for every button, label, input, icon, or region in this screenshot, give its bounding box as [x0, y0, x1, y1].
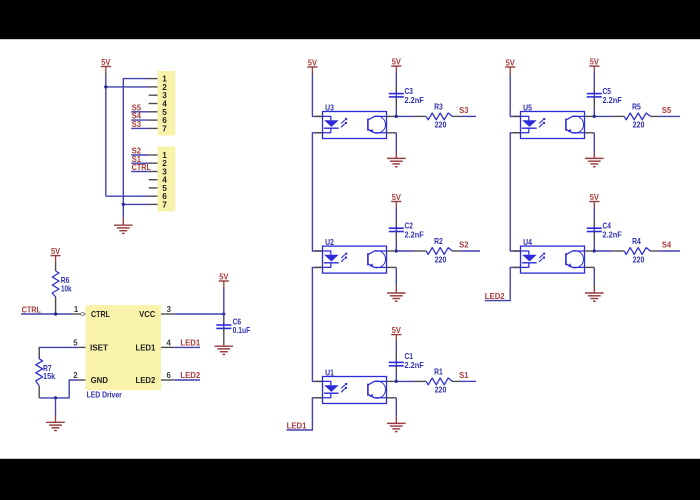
junction CTRL/R6	[54, 312, 57, 315]
wire CTRL to IC pin 1	[21, 313, 72, 315]
U1 LED	[323, 381, 339, 397]
svg-text:LED1: LED1	[136, 343, 156, 352]
junction R7/ground	[54, 396, 57, 399]
wire node to R3	[396, 115, 415, 117]
5V supply (connector area)	[101, 58, 111, 74]
svg-text:5V: 5V	[219, 272, 229, 281]
ground (U3)	[387, 158, 406, 166]
wire ground rail drop	[122, 204, 124, 217]
node S2 junction	[395, 249, 398, 252]
svg-text:2.2nF: 2.2nF	[603, 96, 622, 105]
svg-text:220: 220	[435, 121, 447, 130]
wire 5V to C4	[593, 208, 595, 221]
svg-text:U3: U3	[325, 103, 334, 112]
U2 LED emission arrows	[341, 253, 347, 262]
wire VCC to 5V/C6 node	[175, 313, 224, 315]
svg-text:2.2nF: 2.2nF	[603, 231, 622, 240]
svg-text:2.2nF: 2.2nF	[405, 96, 424, 105]
svg-text:R4: R4	[632, 237, 641, 246]
svg-text:5V: 5V	[392, 326, 402, 335]
wire node to R2	[396, 250, 415, 252]
IC pin 4 stub	[161, 346, 175, 348]
svg-text:U4: U4	[523, 238, 532, 247]
svg-text:C5: C5	[603, 87, 612, 96]
U3 pin stubs	[315, 116, 397, 132]
svg-text:4: 4	[166, 338, 171, 347]
wire J2 pin 6 to 5V rail	[106, 195, 149, 197]
optocoupler sensor U2 body	[323, 238, 387, 273]
svg-text:220: 220	[633, 255, 645, 264]
IC pin 1 stub	[72, 313, 82, 315]
wire ISET to R7	[39, 347, 78, 358]
svg-text:CTRL: CTRL	[132, 163, 151, 172]
svg-text:C6: C6	[233, 317, 242, 326]
svg-text:CTRL: CTRL	[91, 310, 110, 319]
connector J1 pin stubs	[149, 79, 158, 129]
wire R7 bottom to IC GND pin	[39, 380, 78, 398]
svg-text:3: 3	[167, 305, 172, 314]
wire net S3 to J1 pin	[131, 127, 148, 129]
svg-text:S4: S4	[662, 240, 672, 249]
svg-text:5V: 5V	[392, 58, 402, 67]
svg-text:C3: C3	[405, 87, 414, 96]
ground (U5)	[585, 158, 604, 166]
svg-text:1: 1	[74, 305, 79, 314]
capacitor C6 0.1uF	[216, 317, 250, 335]
junction at ground rail / J2 pin 7	[122, 203, 125, 206]
wire node to R5	[594, 115, 613, 117]
svg-text:2.2nF: 2.2nF	[405, 361, 424, 370]
svg-text:S3: S3	[132, 120, 142, 129]
U4 LED emission arrows	[539, 253, 545, 262]
op IC U2 LED driver body	[86, 305, 162, 390]
svg-text:LED Driver: LED Driver	[87, 391, 123, 400]
connector J2 pin stubs	[149, 155, 158, 204]
wire node to R1	[396, 380, 415, 382]
wire 5V to C1	[395, 342, 397, 351]
node S1 junction	[395, 380, 398, 383]
svg-text:5V: 5V	[308, 58, 318, 67]
optocoupler sensor U4 body	[521, 238, 585, 273]
U3 phototransistor	[368, 116, 387, 133]
U3 LED emission arrows	[341, 118, 347, 127]
5V supply (C6)	[219, 272, 229, 288]
ground (U4)	[585, 293, 604, 301]
wire 5V to C3	[395, 73, 397, 87]
wire 5V rail down to J2 pin 6	[105, 74, 107, 197]
svg-text:VCC: VCC	[139, 310, 155, 319]
IC pin 5 stub	[78, 346, 85, 348]
capacitor C2 2.2nF	[389, 221, 424, 239]
node S5 junction	[593, 115, 596, 118]
svg-text:U5: U5	[523, 103, 532, 112]
wire net CTRL to J2 pin	[131, 171, 148, 173]
wire U4 emitter to ground	[593, 267, 595, 286]
wire U5 cathode to U4 anode	[510, 133, 520, 251]
svg-text:LED2: LED2	[136, 376, 156, 385]
wire net S5 to J1 pin	[131, 111, 148, 113]
svg-text:LED2: LED2	[485, 292, 505, 301]
resistor R1 220	[415, 368, 461, 395]
5V supply (C4)	[589, 193, 599, 209]
svg-text:R2: R2	[434, 237, 443, 246]
svg-text:5V: 5V	[590, 193, 600, 202]
svg-text:5V: 5V	[590, 58, 600, 67]
svg-text:U2: U2	[325, 238, 334, 247]
U1 pin stubs	[315, 381, 397, 397]
5V supply (C2)	[391, 193, 401, 209]
pin connect circle IC pin 1	[81, 312, 84, 315]
svg-text:R5: R5	[632, 103, 641, 112]
svg-text:220: 220	[435, 255, 447, 264]
svg-text:2: 2	[73, 371, 78, 380]
resistor R7 15k	[36, 347, 56, 398]
U2 pin stubs	[315, 251, 397, 267]
svg-text:LED1: LED1	[180, 339, 200, 348]
wire 5V to C5	[593, 73, 595, 87]
IC pin 6 stub	[161, 379, 175, 381]
wire net S1 to J2 pin	[131, 162, 148, 164]
U5 LED	[521, 116, 537, 132]
junction at 5V rail / J1 pin 2	[104, 85, 107, 88]
resistor R2 220	[415, 237, 461, 264]
wire U2 cathode to U1 anode	[312, 267, 322, 381]
wire J2 pin 7 to ground rail	[123, 203, 148, 205]
svg-text:LED1: LED1	[287, 421, 307, 430]
wire U1 emitter to ground	[395, 398, 397, 417]
svg-text:220: 220	[435, 386, 447, 395]
svg-text:S5: S5	[662, 106, 672, 115]
svg-text:C4: C4	[603, 221, 612, 230]
ground (C6)	[215, 346, 234, 354]
wire C6 to ground	[223, 328, 225, 341]
svg-text:0.1uF: 0.1uF	[233, 326, 251, 335]
U2 phototransistor	[368, 251, 387, 268]
wire R5 to S5	[658, 115, 680, 117]
wire 5V to VCC node	[223, 288, 225, 314]
resistor R5 220	[613, 103, 659, 130]
resistor R3 220	[415, 103, 461, 130]
U3 LED	[323, 116, 339, 132]
node S4 junction	[593, 249, 596, 252]
ground (LED driver)	[46, 422, 65, 430]
wire net S4 to J1 pin	[131, 119, 148, 121]
connector J2 body	[158, 147, 176, 212]
5V supply (left sensor column)	[307, 58, 317, 74]
U2 LED	[323, 251, 339, 267]
wire R3 to S3	[460, 115, 476, 117]
svg-text:C1: C1	[405, 352, 414, 361]
wire U1 cathode to LED1 net	[287, 398, 323, 430]
U5 LED emission arrows	[539, 118, 545, 127]
svg-text:S3: S3	[459, 106, 469, 115]
wire node to C6	[223, 314, 225, 318]
svg-text:S2: S2	[459, 240, 469, 249]
junction VCC node	[222, 312, 225, 315]
svg-text:7: 7	[162, 124, 167, 133]
optocoupler sensor U5 body	[521, 103, 585, 138]
connector J2 pin numbers 1-7	[162, 151, 167, 209]
U5 phototransistor	[566, 116, 585, 133]
5V supply (right sensor column)	[505, 58, 515, 74]
wire net S2 to J2 pin	[131, 154, 148, 156]
svg-text:U1: U1	[325, 368, 334, 377]
svg-text:S1: S1	[459, 371, 469, 380]
wire 5V rail to U5 anode	[510, 74, 520, 116]
IC pin 3 stub	[161, 313, 175, 315]
wire net LED1 at IC	[175, 346, 200, 348]
capacitor C4 2.2nF	[587, 221, 622, 239]
optocoupler sensor U3 body	[323, 103, 387, 138]
wire U4 cathode to LED2 net	[485, 267, 521, 300]
ground (connector)	[114, 225, 133, 233]
svg-text:5V: 5V	[51, 247, 61, 256]
svg-text:5: 5	[73, 338, 78, 347]
wire J1 pin 2 to 5V rail	[106, 86, 149, 88]
wire J1 pin 1 to ground rail	[123, 79, 148, 205]
wire 5V rail to U3 anode	[312, 74, 322, 116]
U4 LED	[521, 251, 537, 267]
optocoupler sensor U1 body	[323, 368, 387, 403]
U5 pin stubs	[513, 116, 595, 132]
wire R4 to S4	[658, 250, 680, 252]
svg-text:5V: 5V	[392, 193, 402, 202]
svg-text:C2: C2	[405, 221, 414, 230]
wire C4 to node	[593, 232, 595, 242]
resistor R4 220	[613, 237, 659, 264]
resistor R6 10k	[52, 263, 72, 314]
5V supply (C5)	[589, 58, 599, 74]
connector J1 pin numbers 1-7	[162, 75, 167, 134]
wire to ground (LED driver)	[55, 398, 57, 415]
svg-text:5V: 5V	[506, 58, 516, 67]
wire U3 emitter to ground	[395, 133, 397, 152]
5V supply (C1)	[391, 326, 401, 342]
svg-text:2.2nF: 2.2nF	[405, 231, 424, 240]
capacitor C3 2.2nF	[389, 87, 424, 105]
node S3 junction	[395, 115, 398, 118]
U1 phototransistor	[368, 381, 387, 398]
svg-text:5V: 5V	[101, 58, 111, 67]
svg-text:GND: GND	[91, 376, 108, 385]
5V supply (R6)	[51, 247, 61, 263]
svg-text:LED2: LED2	[180, 371, 200, 380]
wire R1 to S1	[460, 380, 476, 382]
svg-text:CTRL: CTRL	[22, 306, 41, 315]
svg-text:10k: 10k	[61, 284, 72, 293]
wire U2 emitter to ground	[395, 267, 397, 286]
wire C5 to node	[593, 97, 595, 107]
U4 pin stubs	[513, 251, 595, 267]
svg-text:220: 220	[633, 121, 645, 130]
wire U3 cathode to U2 anode	[312, 133, 322, 251]
connector J1 body	[158, 71, 176, 136]
wire C1 to node	[395, 366, 397, 372]
5V supply (C3)	[391, 58, 401, 74]
ground (U2)	[387, 293, 406, 301]
svg-text:R1: R1	[434, 368, 443, 377]
U1 LED emission arrows	[341, 383, 347, 392]
ground (U1)	[387, 423, 406, 431]
wire R2 to S2	[460, 250, 480, 252]
wire net LED2 at IC	[175, 379, 200, 381]
wire C2 to node	[395, 232, 397, 242]
capacitor C1 2.2nF	[389, 352, 424, 370]
U4 phototransistor	[566, 251, 585, 268]
svg-text:15k: 15k	[43, 372, 56, 381]
svg-text:6: 6	[166, 371, 171, 380]
IC pin 2 stub	[78, 379, 85, 381]
capacitor C5 2.2nF	[587, 87, 622, 105]
svg-text:ISET: ISET	[90, 343, 108, 352]
svg-text:R3: R3	[434, 103, 443, 112]
wire 5V to C2	[395, 208, 397, 221]
wire C3 to node	[395, 97, 397, 107]
wire node to R4	[594, 250, 613, 252]
wire U5 emitter to ground	[593, 133, 595, 152]
svg-text:7: 7	[162, 200, 167, 209]
